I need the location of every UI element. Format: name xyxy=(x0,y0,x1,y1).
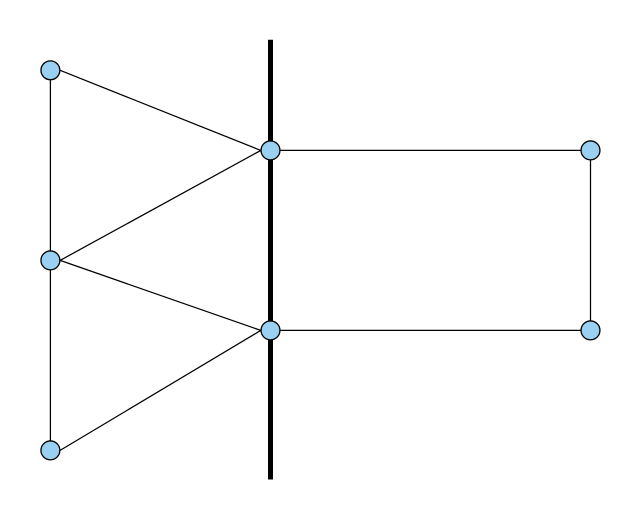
wire edge v1-v2 (left top vertical) xyxy=(49,70,51,260)
cut line (thick vertical partition) xyxy=(268,40,273,480)
node v3 (bottom left) xyxy=(41,441,60,460)
wire edge v2-v5 (diagonal) xyxy=(60,260,261,330)
node v4 (center top, on cut line) xyxy=(261,141,280,160)
wire edge v2-v3 (left bottom vertical) xyxy=(49,260,51,450)
node v1 (top left) xyxy=(41,61,60,80)
wire edge v2-v4 (diagonal) xyxy=(60,150,261,260)
wire edge v6-v7 (right vertical) xyxy=(590,150,592,330)
node v5 (center bottom, on cut line) xyxy=(261,321,280,340)
wire edge v5-v7 (bottom horizontal) xyxy=(271,329,591,331)
node v7 (right bottom) xyxy=(581,321,600,340)
wire edge v3-v5 (diagonal) xyxy=(60,330,261,450)
node v6 (right top) xyxy=(581,141,600,160)
node v2 (middle left) xyxy=(41,251,60,270)
wire edge v4-v6 (top horizontal) xyxy=(271,149,591,151)
wire edge v1-v4 (diagonal) xyxy=(60,70,261,150)
